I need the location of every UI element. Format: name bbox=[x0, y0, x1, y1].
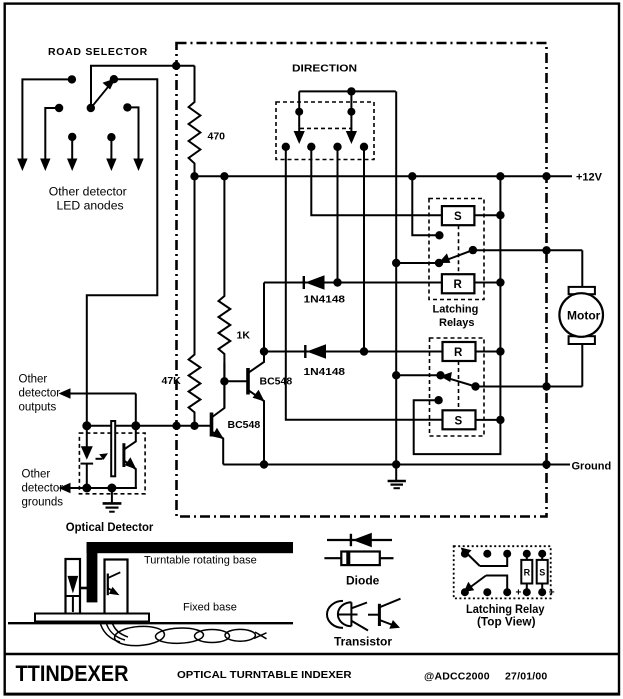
node vertical at ground rail bbox=[392, 460, 400, 468]
switch SW1 wiper arm (road selector) bbox=[91, 82, 113, 109]
svg-text:LED anodes: LED anodes bbox=[57, 199, 124, 213]
wire contact A to arrow 1 bbox=[22, 79, 72, 159]
ground symbol main bbox=[388, 480, 406, 483]
node diode 2 to contact 4 bbox=[360, 347, 368, 355]
phototransistor symbol in right block bbox=[107, 574, 109, 596]
svg-text:47K: 47K bbox=[162, 375, 182, 387]
wire K2 upper contact bbox=[396, 374, 440, 376]
wire motor bottom lead bbox=[581, 344, 583, 387]
wire optical detector bottom bbox=[62, 487, 136, 489]
svg-text:TTINDEXER: TTINDEXER bbox=[16, 661, 129, 686]
diode D1 1N4148 line bbox=[264, 282, 442, 284]
dash-dot enclosure box bbox=[177, 43, 547, 517]
border bottom thick line bbox=[4, 693, 619, 696]
svg-text:+: + bbox=[549, 587, 555, 598]
node K1 R right bbox=[496, 278, 504, 286]
LED light arrow bbox=[96, 458, 103, 460]
phototransistor optical bbox=[122, 443, 125, 467]
switch K2 wiper arm bbox=[447, 378, 476, 387]
arrow 2 LED anode bbox=[40, 159, 50, 172]
wire +12V to K1 upper contact bbox=[412, 176, 439, 235]
wire motor top lead bbox=[581, 250, 583, 287]
svg-text:BC548: BC548 bbox=[260, 376, 293, 388]
node base branch bbox=[220, 377, 228, 385]
svg-text:R: R bbox=[454, 279, 463, 291]
LED symbol in left block bbox=[68, 576, 79, 594]
svg-text:+: + bbox=[516, 587, 522, 598]
optical detector dashed box bbox=[79, 433, 145, 494]
node C contact bbox=[55, 104, 63, 112]
legend transistor package bbox=[327, 601, 368, 631]
svg-text:R: R bbox=[524, 568, 531, 578]
svg-text:Optical Detector: Optical Detector bbox=[66, 520, 154, 534]
relay K1 dashed box bbox=[429, 199, 484, 300]
node dash-dot crossing dot top-left bbox=[172, 62, 180, 70]
diode D2 1N4148 line bbox=[264, 351, 443, 353]
wire 1K bottom to lower transistor collector bbox=[223, 363, 225, 409]
ground symbol optical bbox=[111, 488, 113, 503]
node K2 lower contact bbox=[434, 396, 442, 404]
wire outputs vertical to collector node bbox=[135, 394, 137, 426]
svg-text:S: S bbox=[454, 211, 462, 223]
slot vane rectangle bbox=[111, 421, 115, 476]
svg-text:+12V: +12V bbox=[576, 172, 603, 184]
svg-text:(Top View): (Top View) bbox=[477, 615, 536, 629]
wire K1 lower contact bbox=[396, 262, 439, 264]
svg-text:1N4148: 1N4148 bbox=[304, 367, 346, 378]
wire K1 R right bbox=[474, 282, 500, 284]
node G contact bbox=[107, 133, 115, 141]
svg-text:BC548: BC548 bbox=[228, 419, 261, 431]
wire contact E to arrow 5 bbox=[127, 107, 138, 159]
wire coil vertical +12V bbox=[499, 176, 501, 420]
svg-text:Motor: Motor bbox=[567, 309, 601, 323]
legend relay S coil bbox=[537, 560, 548, 584]
svg-text:1K: 1K bbox=[237, 330, 251, 342]
wire from contact B down left side to optical detector bbox=[87, 79, 158, 426]
motor M1 body bbox=[559, 293, 603, 337]
legend transistor schematic bbox=[378, 604, 381, 626]
turntable rotating base thick bar bbox=[87, 542, 293, 553]
svg-text:detector: detector bbox=[22, 483, 64, 495]
node D pivot bbox=[87, 104, 95, 112]
arrow 1 LED anode bbox=[17, 159, 27, 172]
node E contact bbox=[123, 103, 131, 111]
node direction top bus junction bbox=[347, 87, 355, 95]
light tick between block and vane bbox=[80, 587, 88, 590]
relay K2 S coil box bbox=[443, 410, 476, 429]
transistor Q2 BC548 lower bbox=[210, 413, 214, 437]
node B contact bbox=[110, 75, 118, 83]
wire contact C to arrow 2 bbox=[45, 108, 59, 160]
relay K1 S coil box bbox=[442, 206, 475, 225]
svg-text:470: 470 bbox=[208, 131, 226, 143]
LED optical bbox=[86, 426, 88, 447]
svg-text:detector: detector bbox=[19, 388, 61, 400]
wire grounds with arrow bbox=[62, 487, 137, 489]
wire direction top bus bbox=[299, 90, 396, 92]
title separator line bbox=[4, 653, 619, 656]
legend relay upper arm bbox=[480, 554, 507, 566]
node motor wire dash-dot crossing bbox=[542, 246, 550, 254]
twisted pair wires bbox=[100, 622, 267, 647]
svg-text:R: R bbox=[454, 347, 463, 359]
wire contact 3 down to diode 1 line bbox=[337, 147, 339, 283]
svg-text:27/01/00: 27/01/00 bbox=[505, 671, 547, 683]
node direction contact 3 bbox=[333, 143, 341, 151]
wire K2 wiper to motor bbox=[476, 386, 583, 388]
node base wire at dash-dot bbox=[172, 422, 180, 430]
relay K2 dashed box bbox=[430, 338, 485, 436]
wire contact G to arrow 4 bbox=[110, 137, 112, 159]
wire +12V rail bbox=[195, 175, 573, 177]
node vertical to lower relay contact bbox=[392, 371, 400, 379]
svg-text:@ADCC2000: @ADCC2000 bbox=[424, 671, 490, 683]
relay K2 R coil box bbox=[443, 342, 476, 361]
svg-text:Other: Other bbox=[22, 469, 51, 481]
wire outputs with arrow bbox=[62, 393, 136, 395]
svg-text:outputs: outputs bbox=[19, 402, 57, 414]
wire K2 lower contact loop bbox=[414, 400, 501, 454]
node collector to diode 2 bbox=[260, 347, 268, 355]
node K2 upper contact bbox=[436, 371, 444, 379]
svg-text:Fixed base: Fixed base bbox=[183, 602, 237, 614]
svg-text:OPTICAL TURNTABLE INDEXER: OPTICAL TURNTABLE INDEXER bbox=[177, 670, 352, 681]
node rail at 470 bbox=[190, 172, 198, 180]
switch direction wiper 2 bbox=[350, 91, 352, 132]
relay K2 gang dashed link bbox=[458, 361, 460, 410]
svg-text:ROAD SELECTOR: ROAD SELECTOR bbox=[48, 46, 148, 58]
node rail dash-dot crossing bbox=[542, 172, 550, 180]
direction dashed box bbox=[276, 102, 374, 160]
direction gang dashed link bbox=[300, 127, 351, 129]
wire lower base from optical detector bbox=[87, 425, 212, 427]
legend relay lower arm bbox=[486, 576, 507, 593]
wire ground rail bbox=[223, 464, 570, 466]
node rail at 1K bbox=[220, 172, 228, 180]
node diode 1 to contact 3 bbox=[333, 278, 341, 286]
node K1 lower contact bbox=[435, 259, 443, 267]
arrow 5 LED anode bbox=[133, 159, 143, 172]
svg-text:Other detector: Other detector bbox=[49, 185, 127, 199]
node direction contact 4 bbox=[360, 143, 368, 151]
wire base of upper BC548 bbox=[224, 380, 248, 382]
base plate rectangle bbox=[35, 614, 149, 622]
wire road selector pole feed (top wire to 470) bbox=[91, 66, 195, 108]
wire contact 2 to upper relay S bbox=[311, 147, 442, 215]
svg-text:S: S bbox=[539, 568, 545, 578]
node F contact bbox=[68, 133, 76, 141]
node LED cathode bottom bbox=[82, 484, 91, 493]
node direction contact 1 bbox=[282, 143, 290, 151]
svg-text:Relays: Relays bbox=[439, 317, 474, 329]
node A contact bbox=[68, 75, 76, 83]
node base wire at 47K bbox=[190, 422, 198, 430]
node rail at coil vertical bbox=[496, 172, 504, 180]
legend latching relay dotted box bbox=[454, 546, 551, 598]
node rail at relay feed bbox=[408, 172, 416, 180]
switch K1 wiper arm bbox=[445, 250, 473, 260]
svg-text:Transistor: Transistor bbox=[334, 635, 392, 649]
arrow 3 LED anode bbox=[67, 159, 77, 172]
node ground branch bbox=[107, 484, 116, 493]
node K1 S right bbox=[496, 211, 504, 219]
svg-text:1N4148: 1N4148 bbox=[304, 295, 346, 306]
arrow 4 LED anode bbox=[106, 159, 116, 172]
fixed base line bbox=[8, 622, 293, 624]
turntable vane thick bar bbox=[87, 542, 98, 602]
svg-text:Other: Other bbox=[19, 374, 48, 386]
wire contact 1 to lower relay S bbox=[286, 147, 443, 420]
node motor lower wire dash-dot crossing bbox=[542, 382, 550, 390]
resistor R2 1K bbox=[219, 176, 231, 362]
wire K2 R right bbox=[476, 351, 501, 353]
svg-text:grounds: grounds bbox=[22, 497, 64, 509]
node vertical to upper relay contact bbox=[392, 259, 400, 267]
node direction contact 2 bbox=[307, 143, 315, 151]
node phototransistor collector junction bbox=[131, 421, 140, 430]
wire K1 S right bbox=[474, 214, 500, 216]
legend relay R coil bbox=[521, 560, 532, 584]
wire K2 S right bbox=[476, 419, 501, 421]
legend diode package bbox=[324, 557, 341, 559]
node ground rail dash-dot crossing bbox=[542, 460, 550, 468]
node K1 upper contact bbox=[435, 231, 443, 239]
node K2 S right bbox=[496, 416, 504, 424]
node ground rail at Q1 emitter bbox=[260, 460, 268, 468]
svg-text:Latching: Latching bbox=[433, 304, 479, 316]
wire K1 wiper to motor bbox=[473, 249, 582, 251]
svg-text:Turntable rotating base: Turntable rotating base bbox=[144, 555, 257, 567]
legend diode schematic symbol bbox=[327, 539, 392, 541]
resistor R1 470 bbox=[189, 66, 201, 177]
svg-text:DIRECTION: DIRECTION bbox=[292, 63, 357, 75]
relay K1 R coil box bbox=[442, 274, 475, 293]
switch direction wiper 1 bbox=[298, 91, 300, 132]
wire contact 4 down to diode 2 line bbox=[363, 147, 365, 352]
svg-text:Diode: Diode bbox=[346, 574, 380, 588]
svg-text:Ground: Ground bbox=[572, 461, 612, 473]
detector block left bbox=[66, 559, 81, 614]
resistor R3 47K bbox=[189, 176, 201, 425]
svg-text:S: S bbox=[455, 416, 463, 428]
node K2 R right bbox=[496, 347, 504, 355]
detector block right bbox=[105, 560, 128, 615]
relay K1 gang dashed link bbox=[458, 225, 460, 275]
node LED anode junction bbox=[82, 421, 91, 430]
wire contact F to arrow 3 bbox=[71, 137, 73, 160]
transistor Q1 BC548 upper bbox=[246, 368, 250, 395]
motor M1 caps bbox=[569, 287, 595, 294]
wire direction bus right vertical bbox=[395, 91, 397, 480]
